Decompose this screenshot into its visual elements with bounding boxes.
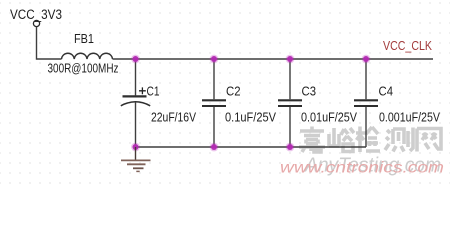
svg-text:C3: C3 (302, 84, 317, 99)
svg-text:www.cntronics.com: www.cntronics.com (280, 160, 444, 177)
watermark layer (decorative) (299, 127, 441, 153)
svg-text:300R@100MHz: 300R@100MHz (48, 61, 119, 76)
node junction top C2 (210, 55, 219, 64)
svg-text:C4: C4 (379, 84, 394, 99)
ferrite bead FB1 (48, 31, 119, 76)
wire bottom rail (136, 146, 367, 148)
峪 (329, 128, 354, 152)
node junction bottom C1 (131, 143, 140, 152)
测 (385, 128, 413, 152)
node junction top C4 (362, 55, 371, 64)
node junction bottom C3 (286, 143, 295, 152)
svg-text:0.1uF/25V: 0.1uF/25V (225, 109, 276, 124)
svg-text:C1: C1 (147, 84, 160, 99)
svg-text:22uF/16V: 22uF/16V (151, 109, 196, 124)
capacitor C2 (202, 59, 276, 147)
wire top rail (113, 58, 434, 60)
capacitor C1 (121, 59, 196, 147)
svg-text:VCC_CLK: VCC_CLK (383, 38, 432, 53)
power port VCC_3V3 (10, 7, 62, 27)
svg-text:0.01uF/25V: 0.01uF/25V (301, 109, 357, 124)
svg-text:C2: C2 (226, 84, 241, 99)
网 (417, 129, 441, 152)
node junction top C1 (131, 55, 140, 64)
svg-text:FB1: FB1 (74, 31, 94, 46)
ground (121, 147, 151, 171)
嘉 (299, 127, 325, 153)
svg-text:0.001uF/25V: 0.001uF/25V (379, 109, 440, 124)
node junction top C3 (286, 55, 295, 64)
svg-text:VCC_3V3: VCC_3V3 (10, 7, 62, 22)
检 (356, 127, 380, 153)
wire from power port to FB1 (37, 27, 62, 59)
capacitor C3 (278, 59, 357, 147)
node junction bottom C2 (210, 143, 219, 152)
capacitor C4 (354, 59, 440, 147)
